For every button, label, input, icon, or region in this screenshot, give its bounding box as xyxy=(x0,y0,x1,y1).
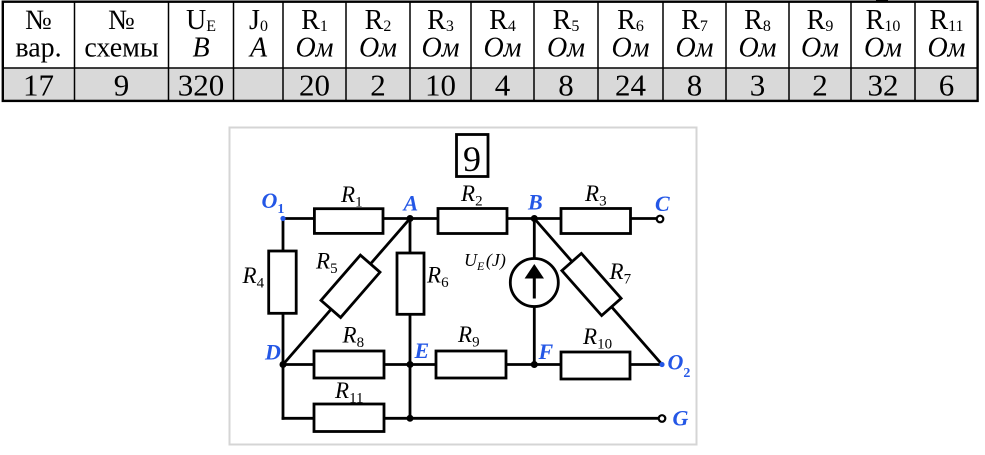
svg-text:Ом: Ом xyxy=(801,33,839,64)
svg-text:C: C xyxy=(655,191,670,216)
svg-text:F: F xyxy=(538,339,554,364)
resistor R2 xyxy=(438,209,507,234)
svg-text:А: А xyxy=(248,33,268,64)
svg-text:В: В xyxy=(192,33,209,64)
wire O1-D vertical xyxy=(282,219,285,419)
svg-text:Ом: Ом xyxy=(359,33,397,64)
resistor R10 xyxy=(561,352,630,379)
svg-text:320: 320 xyxy=(178,68,225,103)
wire middle row D-O2 xyxy=(283,363,662,366)
svg-text:20: 20 xyxy=(299,68,330,103)
node B xyxy=(531,215,538,222)
svg-text:9: 9 xyxy=(114,68,130,103)
wire D-A diagonal xyxy=(283,219,410,365)
svg-text:Ом: Ом xyxy=(421,33,459,64)
svg-text:Ом: Ом xyxy=(738,33,776,64)
header row line 1 xyxy=(25,5,963,36)
svg-text:8: 8 xyxy=(687,68,703,103)
bottom junction xyxy=(407,415,414,422)
node O2 blue dot xyxy=(659,362,664,367)
svg-text:Ом: Ом xyxy=(483,33,521,64)
svg-text:D: D xyxy=(264,340,281,365)
svg-text:№: № xyxy=(25,5,52,36)
small artifact above R10 column xyxy=(876,0,888,2)
value row gray background xyxy=(4,69,976,100)
node D xyxy=(280,361,287,368)
svg-text:№: № xyxy=(108,5,135,36)
svg-text:2: 2 xyxy=(370,68,386,103)
label box 9 xyxy=(457,135,489,180)
node A xyxy=(407,215,414,222)
resistor R8 xyxy=(314,351,384,378)
svg-text:A: A xyxy=(402,191,419,216)
resistor R6 xyxy=(397,253,424,314)
values row xyxy=(23,68,954,103)
svg-text:6: 6 xyxy=(939,68,955,103)
resistor R4 xyxy=(269,251,297,313)
resistor R1 xyxy=(314,209,383,234)
node F xyxy=(531,361,538,368)
column dividers xyxy=(75,2,916,101)
svg-text:24: 24 xyxy=(615,68,647,103)
resistor R5 xyxy=(321,255,380,317)
svg-text:Ом: Ом xyxy=(675,33,713,64)
resistor R7 xyxy=(562,253,621,315)
node E xyxy=(407,361,414,368)
wire B-O2 diagonal xyxy=(534,219,662,365)
svg-text:Ом: Ом xyxy=(611,33,649,64)
wire B-F vertical xyxy=(533,219,536,365)
node labels xyxy=(262,188,691,431)
svg-text:32: 32 xyxy=(868,68,899,103)
svg-text:10: 10 xyxy=(425,68,456,103)
wire bottom row xyxy=(283,417,657,420)
junction dots xyxy=(280,215,538,422)
header row line 2 xyxy=(15,33,965,64)
terminal G xyxy=(659,415,666,422)
svg-text:Ом: Ом xyxy=(295,33,333,64)
svg-text:Ом: Ом xyxy=(547,33,585,64)
terminal C xyxy=(657,216,664,223)
resistor R11 xyxy=(314,404,384,432)
wire A-E vertical xyxy=(409,219,412,419)
svg-text:Ом: Ом xyxy=(864,33,902,64)
svg-text:E: E xyxy=(414,338,430,363)
node O1 blue dot xyxy=(280,216,285,221)
resistor R3 xyxy=(561,209,631,234)
svg-text:2: 2 xyxy=(812,68,828,103)
svg-text:B: B xyxy=(527,190,543,215)
svg-text:3: 3 xyxy=(750,68,766,103)
svg-text:4: 4 xyxy=(495,68,511,103)
svg-text:Ом: Ом xyxy=(927,33,965,64)
svg-text:8: 8 xyxy=(558,68,574,103)
svg-text:G: G xyxy=(673,406,689,431)
header/value divider xyxy=(2,67,978,69)
svg-text:UE(J): UE(J) xyxy=(464,250,506,273)
current source U_E(J) xyxy=(510,259,558,307)
wire top row O1-C xyxy=(283,217,657,220)
resistor R9 xyxy=(436,351,506,378)
svg-text:9: 9 xyxy=(463,139,481,179)
svg-text:17: 17 xyxy=(23,68,54,103)
svg-text:вар.: вар. xyxy=(15,33,61,64)
svg-text:схемы: схемы xyxy=(84,33,159,64)
outer border xyxy=(3,2,978,101)
